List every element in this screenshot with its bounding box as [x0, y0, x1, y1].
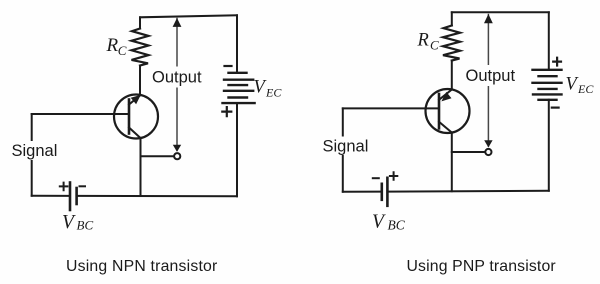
output arrow down head right — [484, 140, 492, 147]
svg-text:Signal: Signal — [323, 137, 369, 155]
wire base lead right — [343, 107, 439, 109]
svg-text:Output: Output — [152, 68, 202, 86]
svg-text:C: C — [118, 43, 127, 58]
minus sign VEC right — [552, 106, 559, 108]
wire resistor top lead — [139, 17, 141, 28]
output arrow up head right — [484, 14, 493, 23]
output arrow down head — [173, 145, 181, 152]
wire bottom rail right of battery VBC — [78, 195, 237, 197]
wire left vertical right circuit — [342, 108, 344, 191]
wire top rail right circuit — [452, 11, 549, 13]
wire right vertical top right circuit — [548, 12, 550, 70]
battery VBC right: long plate — [386, 178, 389, 206]
transistor Q1 emitter arrow (points out, NPN) — [131, 95, 141, 104]
wire bottom rail left of battery VBC right — [343, 191, 381, 193]
wire transistor lower vertical right — [451, 132, 453, 191]
svg-text:EC: EC — [577, 82, 594, 96]
minus sign VBC — [80, 185, 86, 187]
transistor Q2 body (PNP) — [426, 89, 470, 133]
transistor Q2 upper lead — [439, 90, 452, 100]
battery VEC right: plates — [533, 70, 562, 100]
svg-text:BC: BC — [77, 218, 94, 233]
transistor Q1 body (NPN) — [114, 95, 158, 139]
label Signal (right, white backing) — [321, 137, 369, 156]
label Output (left, white backing) — [150, 67, 206, 88]
svg-text:Using NPN transistor: Using NPN transistor — [66, 258, 217, 275]
svg-text:Output: Output — [466, 67, 516, 85]
output arrow up head — [173, 18, 182, 27]
wire resistor to transistor collector — [139, 66, 141, 96]
plus sign VBC right — [390, 172, 397, 179]
wire right vertical top to battery VEC — [236, 15, 238, 73]
node output terminal left — [174, 153, 180, 159]
battery VEC left: plates — [223, 73, 255, 103]
plus sign VEC right — [553, 58, 561, 66]
transistor Q2 lower lead — [439, 122, 452, 133]
svg-text:BC: BC — [388, 217, 406, 232]
wire resistor to transistor right — [451, 61, 453, 90]
resistor RC (left zigzag) — [132, 29, 149, 66]
svg-text:R: R — [106, 35, 119, 56]
wire base lead left — [32, 113, 129, 115]
battery VBC right: short plate — [380, 184, 383, 200]
plus sign VBC — [60, 183, 68, 191]
minus sign VBC right — [373, 177, 379, 179]
output arrow line left — [176, 19, 178, 151]
svg-text:V: V — [372, 212, 386, 233]
wire left vertical (signal loop) — [31, 114, 33, 196]
wire output node stub — [141, 155, 175, 157]
wire top rail left circuit — [140, 15, 237, 17]
resistor RC (right zigzag) — [443, 26, 460, 61]
svg-text:Signal: Signal — [12, 142, 58, 160]
wire transistor lower vertical — [140, 138, 142, 196]
minus sign VEC left — [225, 65, 232, 67]
transistor Q2 base bar — [438, 94, 441, 128]
wire resistor top lead right — [451, 12, 453, 25]
battery VBC long plate — [69, 183, 72, 211]
wire output node stub right — [452, 151, 486, 153]
plus sign VEC left — [222, 107, 231, 116]
battery VBC short plate — [75, 188, 78, 204]
output arrow line right — [487, 15, 489, 147]
label Signal (left, white backing) — [10, 141, 58, 160]
svg-text:EC: EC — [265, 86, 282, 100]
svg-text:Using PNP transistor: Using PNP transistor — [407, 258, 556, 275]
svg-text:V: V — [62, 212, 76, 233]
wire bottom rail left of battery VBC — [32, 195, 69, 197]
wire bottom rail right of battery VBC right — [388, 190, 548, 193]
svg-text:R: R — [417, 31, 429, 51]
transistor Q1 base bar — [128, 100, 131, 134]
wire right vertical battery to bottom — [236, 103, 238, 196]
transistor Q2 emitter arrow (points in, PNP) — [441, 92, 451, 102]
label Output (right, white backing) — [464, 65, 520, 86]
svg-text:C: C — [430, 38, 439, 53]
node output terminal right — [485, 149, 491, 155]
transistor Q1 upper lead — [129, 95, 140, 104]
transistor Q1 lower lead — [129, 128, 140, 138]
wire right vertical bottom right circuit — [548, 100, 550, 191]
